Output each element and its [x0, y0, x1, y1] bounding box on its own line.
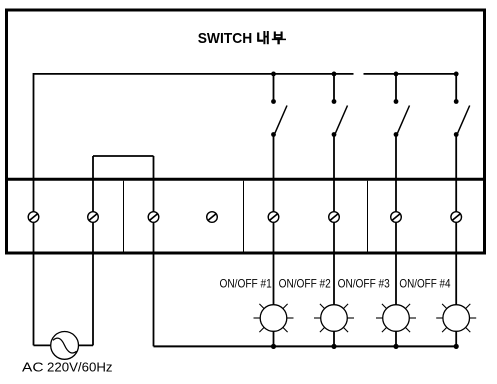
wire: lamp L4 to return bus [455, 331, 457, 346]
junction: S4 tap on bus [454, 72, 459, 77]
svg-text:ON/OFF #1: ON/OFF #1 [220, 276, 273, 290]
wire: switch supply bus segment 2 (feeds S3, S4) [364, 73, 457, 75]
wire: lamp return bus [154, 345, 457, 347]
screw terminal 5 [268, 212, 279, 223]
node: S2 moving contact [332, 132, 337, 137]
lamp L4 [436, 304, 476, 332]
screw terminal 8 [451, 212, 462, 223]
wire: lamp L3 to return bus [395, 331, 397, 346]
wire: S4 output down through terminal 8 to lamp L4 [455, 135, 457, 305]
screw terminal 6 [329, 212, 340, 223]
svg-text:ON/OFF #4: ON/OFF #4 [399, 276, 450, 290]
junction: L1 on return bus [271, 344, 276, 349]
wire: hot feed vertical from terminal 1 up to switch bus and down to AC source [33, 73, 35, 345]
screw terminal 7 [391, 212, 402, 223]
label hangul 부 (title) [272, 32, 286, 45]
svg-text:ON/OFF #3: ON/OFF #3 [338, 276, 391, 290]
node: S3 fixed contact [394, 99, 399, 104]
junction: S2 tap on bus [332, 72, 337, 77]
junction: L2 on return bus [331, 344, 336, 349]
lamp L3 [376, 304, 416, 332]
svg-text:220V/60Hz: 220V/60Hz [47, 360, 113, 375]
switch blade S1 (open) [275, 106, 287, 134]
node: S2 fixed contact [332, 99, 337, 104]
wire: AC source bottom link [34, 344, 94, 346]
wire: lamp L1 to return bus [273, 331, 275, 346]
terminal strip divider 2 [243, 181, 245, 252]
node: S1 fixed contact [271, 99, 276, 104]
svg-text:ON/OFF #2: ON/OFF #2 [279, 276, 332, 290]
lamp L2 [314, 304, 354, 332]
wire: terminal 2 vertical down to AC source [92, 156, 94, 345]
wire: S1 bus to fixed contact [273, 74, 275, 102]
switch blade S2 (open) [336, 106, 348, 134]
switch S3 [394, 72, 410, 305]
wire: switch supply bus segment 1 (feeds S1, S2) [34, 73, 354, 75]
terminal strip divider 1 [123, 181, 125, 252]
switch S1 [271, 72, 287, 305]
svg-text:AC: AC [22, 360, 44, 375]
wire: S2 bus to fixed contact [333, 74, 335, 102]
switch blade S4 (open) [458, 106, 470, 134]
node: S4 fixed contact [454, 99, 459, 104]
svg-text:SWITCH: SWITCH [198, 30, 253, 47]
screw terminal 1 [28, 212, 39, 223]
wire: S2 output down through terminal 6 to lamp L2 [333, 135, 335, 305]
screw terminal 2 [88, 212, 99, 223]
wire: S3 bus to fixed contact [395, 74, 397, 102]
node: S3 moving contact [394, 132, 399, 137]
switch S4 [454, 72, 470, 305]
wire: jumper between terminal 2 and terminal 3 [93, 155, 154, 157]
screw terminal 3 [148, 212, 159, 223]
wire: S1 output down through terminal 5 to lamp L1 [273, 135, 275, 305]
switch S2 [332, 72, 348, 305]
junction: L3 on return bus [393, 344, 398, 349]
node: S4 moving contact [454, 132, 459, 137]
wire: S3 output down through terminal 7 to lamp L3 [395, 135, 397, 305]
terminal strip divider 3 [367, 181, 369, 252]
wire: S4 bus to fixed contact [455, 74, 457, 102]
node: S1 moving contact [271, 132, 276, 137]
junction: S1 tap on bus [271, 72, 276, 77]
lamp L1 [254, 304, 294, 332]
switch blade S3 (open) [398, 106, 410, 134]
wire: lamp L2 to return bus [333, 331, 335, 346]
label hangul 내 (title) [257, 31, 268, 44]
wire: terminal 3 vertical down to lamp return bus [153, 156, 155, 346]
AC source G1 [51, 332, 79, 360]
junction: L4 on return bus [454, 344, 459, 349]
junction: S3 tap on bus [394, 72, 399, 77]
terminal strip top rail [5, 178, 486, 181]
switch enclosure box [7, 10, 485, 253]
screw terminal 4 [207, 212, 218, 223]
